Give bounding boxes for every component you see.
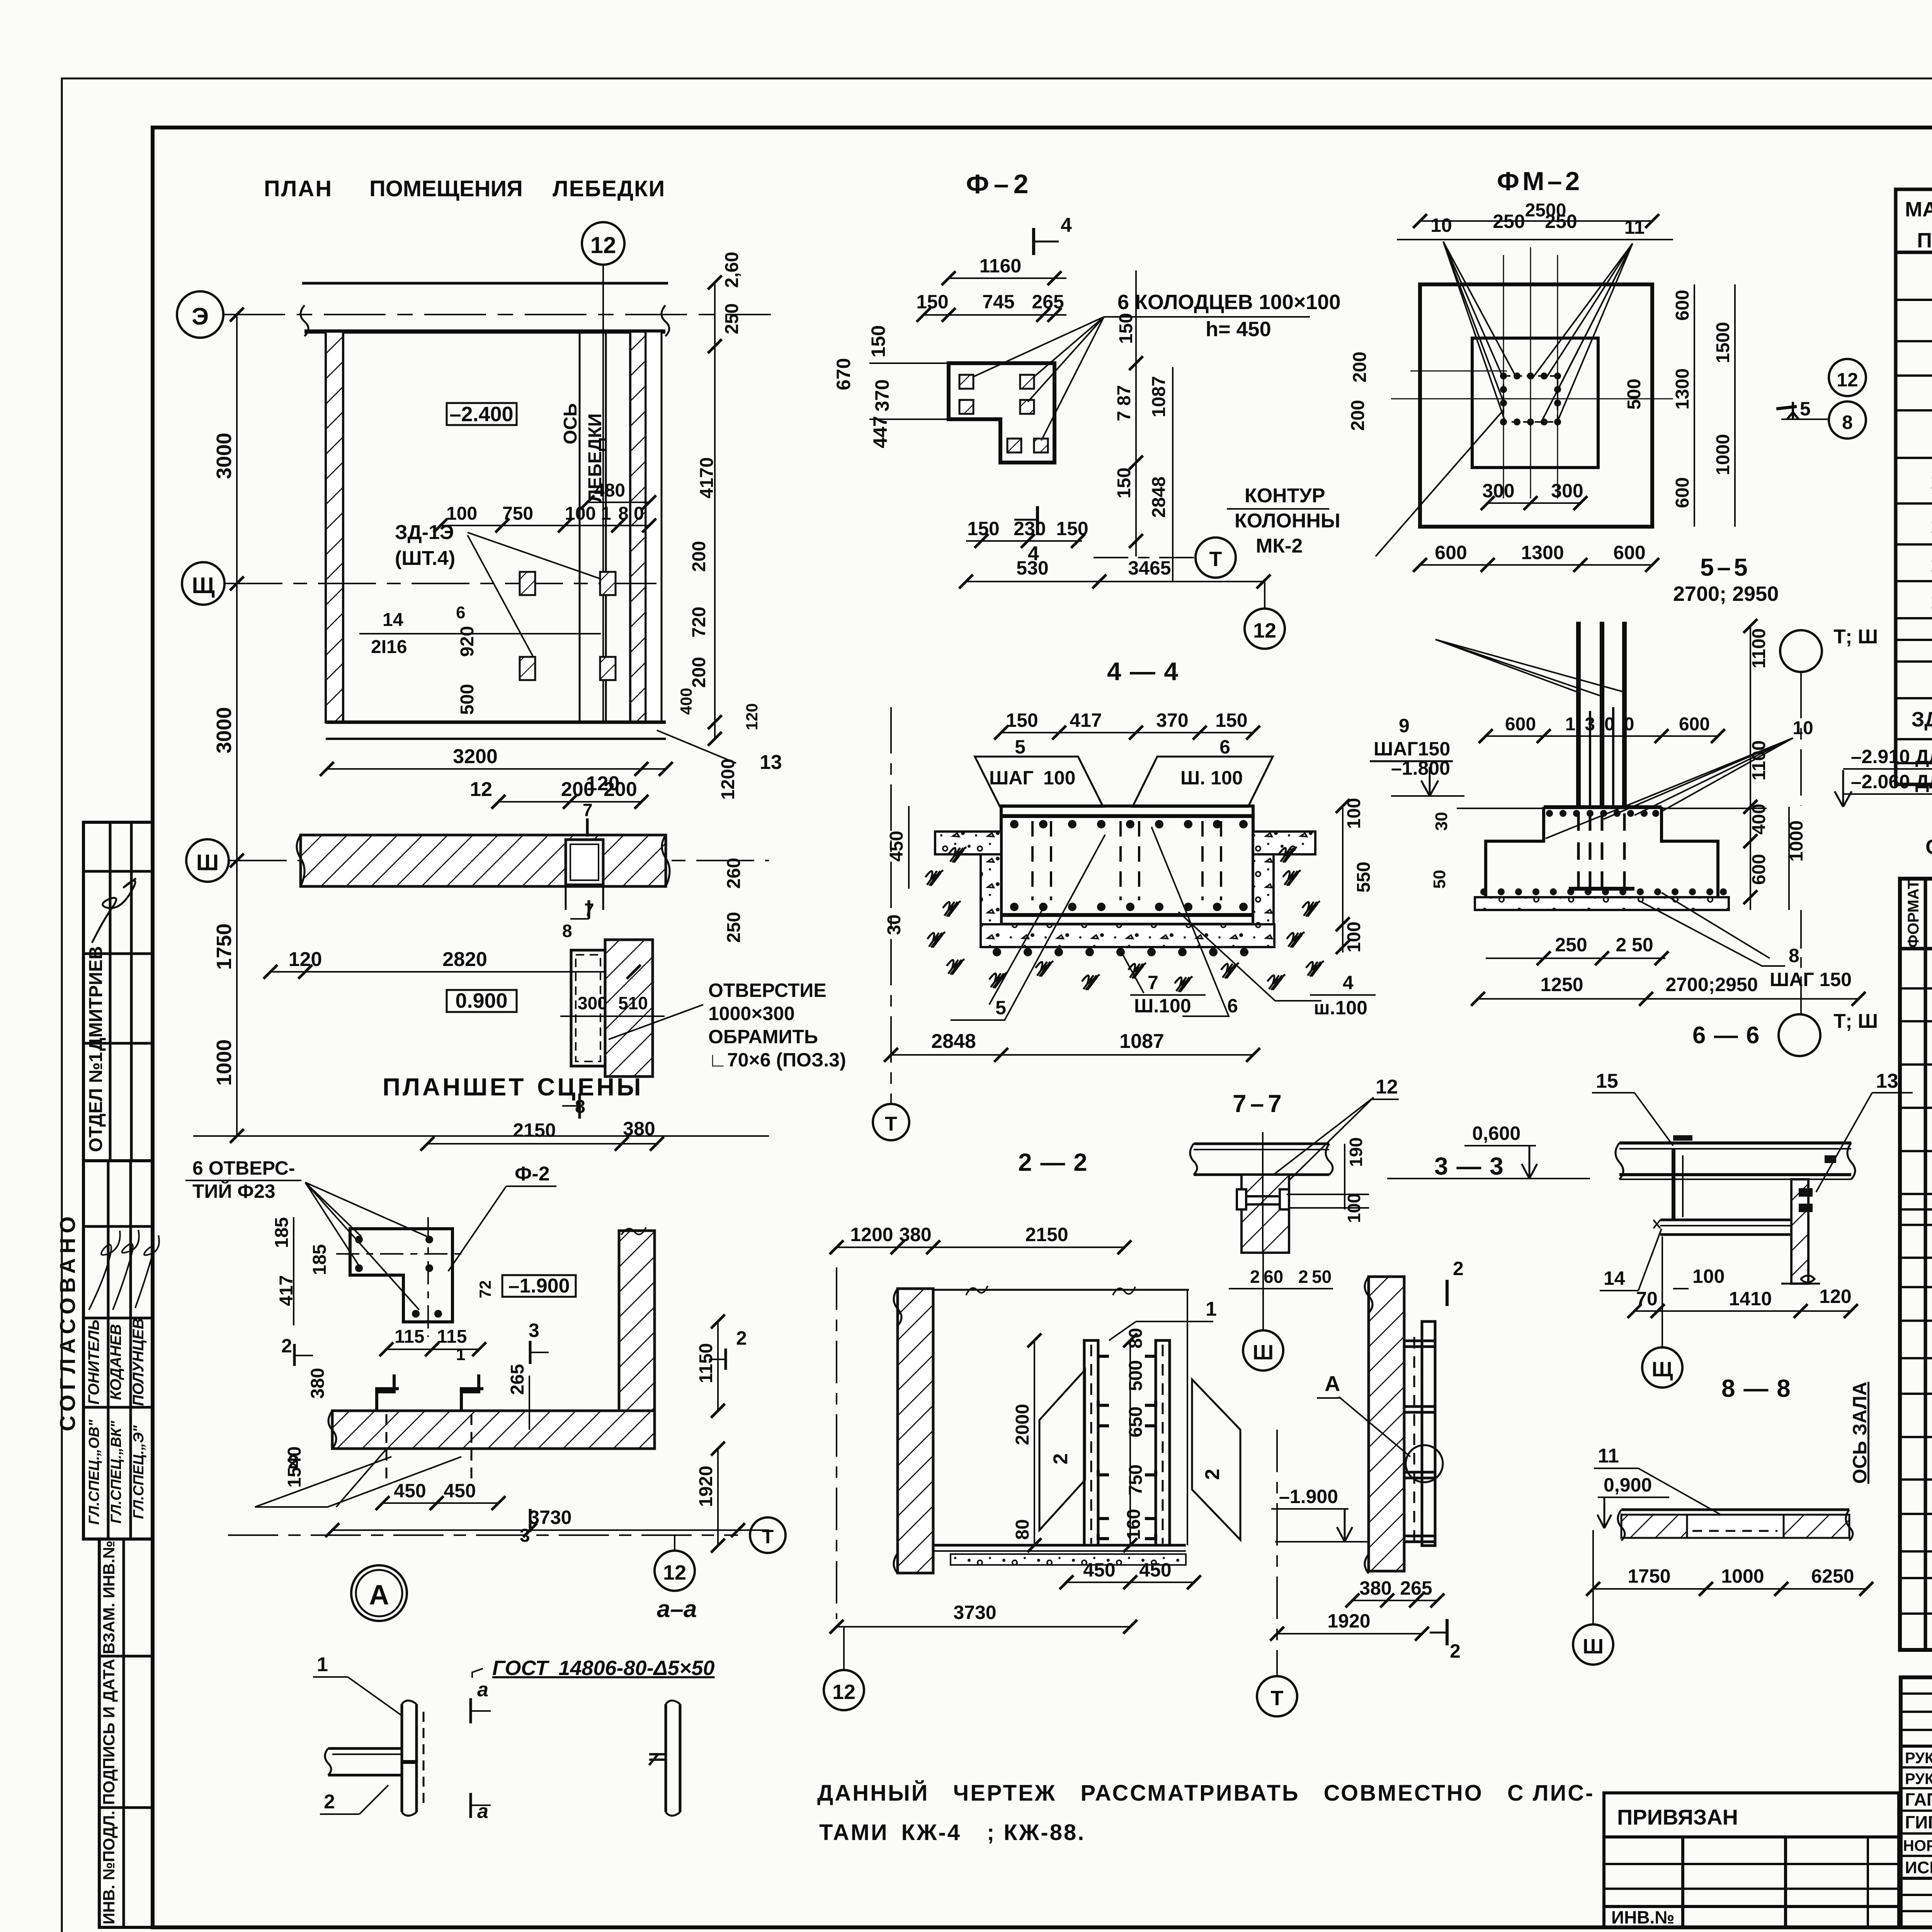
table 2 grid xyxy=(1900,879,1932,1650)
bottom slab xyxy=(981,924,1274,956)
svg-text:3730: 3730 xyxy=(953,1602,996,1623)
bottom dims xyxy=(1593,1565,1866,1589)
leader fan to wells xyxy=(973,317,1310,440)
svg-text:ИНВ.№: ИНВ.№ xyxy=(1611,1907,1675,1927)
marker 3 xyxy=(529,1320,549,1364)
6-6 title + circle xyxy=(1692,910,1878,1056)
svg-text:Ф–2: Ф–2 xyxy=(966,169,1033,199)
top dims xyxy=(837,1224,1124,1247)
callout trapezoid left ШАГ 100 xyxy=(975,757,1103,807)
wall right xyxy=(1781,1179,1820,1284)
big circle A xyxy=(351,1565,407,1621)
weld detail right xyxy=(649,1701,680,1816)
I beam xyxy=(1653,1149,1803,1235)
svg-text:120: 120 xyxy=(1819,1286,1851,1307)
anchor window in Ш wall xyxy=(562,800,603,941)
svg-text:2848: 2848 xyxy=(1149,476,1169,518)
svg-text:12: 12 xyxy=(832,1680,855,1704)
svg-text:ОБРАМИТЬ: ОБРАМИТЬ xyxy=(708,1026,818,1048)
svg-text:5: 5 xyxy=(1015,736,1026,758)
svg-text:80: 80 xyxy=(1012,1519,1033,1540)
ось зала text xyxy=(1849,1382,1871,1484)
svg-text:1200: 1200 xyxy=(718,759,738,800)
svg-text:2Ι16: 2Ι16 xyxy=(371,637,407,657)
svg-text:ПРИВЯЗАН: ПРИВЯЗАН xyxy=(1617,1805,1738,1829)
svg-text:Т: Т xyxy=(762,1526,774,1548)
svg-text:Т: Т xyxy=(1271,1687,1284,1710)
svg-text:2848: 2848 xyxy=(931,1030,976,1053)
svg-text:1: 1 xyxy=(317,1653,328,1676)
svg-text:500: 500 xyxy=(457,684,478,715)
8 ШАГ150 callout xyxy=(1638,893,1852,990)
svg-text:ГОСТ 14806-80-Δ5×50: ГОСТ 14806-80-Δ5×50 xyxy=(492,1656,714,1680)
svg-text:2: 2 xyxy=(1298,1267,1308,1287)
dims left xyxy=(272,1217,479,1364)
svg-text:600: 600 xyxy=(1672,477,1693,508)
svg-text:2,60: 2,60 xyxy=(722,252,742,288)
table 1 header texts xyxy=(1905,198,1932,252)
svg-text:1000: 1000 xyxy=(1721,1565,1764,1587)
svg-text:150: 150 xyxy=(916,291,948,313)
svg-text:250: 250 xyxy=(724,912,744,943)
svg-text:МАРКА: МАРКА xyxy=(1905,198,1932,221)
circle Ш xyxy=(1573,1530,1613,1665)
svg-text:ГАП: ГАП xyxy=(1905,1789,1932,1810)
svg-text:14: 14 xyxy=(383,610,403,630)
svg-text:370: 370 xyxy=(1156,709,1188,731)
svg-text:370: 370 xyxy=(871,379,893,412)
svg-text:6250: 6250 xyxy=(1811,1565,1854,1587)
2 label xyxy=(320,1785,388,1814)
signatures xyxy=(89,1231,120,1310)
vertical opening detail right xyxy=(560,940,665,1077)
svg-text:720: 720 xyxy=(689,607,709,638)
svg-text:250: 250 xyxy=(1545,211,1577,232)
svg-text:ФМ–2: ФМ–2 xyxy=(1497,167,1583,196)
leader fans from 10 and 11 xyxy=(1376,241,1633,556)
svg-text:–1.900: –1.900 xyxy=(1279,1486,1338,1507)
axis circle T xyxy=(1094,537,1236,578)
svg-text:7 87: 7 87 xyxy=(1114,385,1134,421)
svg-text:1087: 1087 xyxy=(1149,376,1169,417)
svg-text:1087: 1087 xyxy=(1119,1030,1164,1053)
table 1 grid xyxy=(1896,189,1932,784)
svg-text:7–7: 7–7 xyxy=(1233,1090,1286,1117)
9 ШАГ150 label xyxy=(1370,715,1453,761)
anchor plates xyxy=(520,572,616,680)
svg-text:250: 250 xyxy=(1493,211,1525,232)
svg-text:2: 2 xyxy=(1450,1640,1461,1662)
svg-text:200: 200 xyxy=(561,778,595,801)
svg-text:5: 5 xyxy=(995,997,1006,1019)
svg-text:ЗД-1Э: ЗД-1Э xyxy=(395,521,454,544)
svg-text:РУК.КБ-1: РУК.КБ-1 xyxy=(1905,1770,1932,1787)
контур колонны text xyxy=(1227,485,1340,557)
svg-text:265: 265 xyxy=(1400,1577,1432,1599)
callout trapezoid right Ш.100 xyxy=(1133,757,1273,807)
svg-text:12: 12 xyxy=(663,1561,686,1584)
left floor flange xyxy=(935,832,1001,924)
ceiling slab band xyxy=(1190,1144,1333,1175)
svg-text:0.900: 0.900 xyxy=(455,989,507,1012)
svg-text:НОРМ.КОН.: НОРМ.КОН. xyxy=(1903,1837,1932,1854)
step profile xyxy=(1486,807,1718,897)
signature xyxy=(92,878,136,943)
leader fan xyxy=(305,1182,427,1310)
left dims 1750 1000 xyxy=(193,861,769,1136)
dim 2500 xyxy=(1420,200,1652,221)
svg-text:300: 300 xyxy=(1551,480,1583,502)
dim 3000 lower left xyxy=(213,583,237,861)
svg-text:1920: 1920 xyxy=(696,1466,716,1507)
svg-text:1: 1 xyxy=(456,1345,465,1364)
floor slab xyxy=(933,1545,1186,1565)
svg-text:13: 13 xyxy=(760,751,782,774)
dashed bars in pedestal xyxy=(1578,813,1624,889)
svg-text:260: 260 xyxy=(724,858,744,889)
dims 380/265 xyxy=(284,1321,718,1546)
svg-text:600: 600 xyxy=(1672,290,1693,321)
svg-text:ПОЛУНЦЕВ: ПОЛУНЦЕВ xyxy=(130,1318,147,1406)
right dims xyxy=(1343,798,1374,952)
svg-text:Ш: Ш xyxy=(1253,1341,1274,1364)
-2.910/-2.060 notes xyxy=(1835,746,1932,807)
top wall band xyxy=(301,283,669,336)
table 2 header texts xyxy=(1905,880,1932,948)
svg-text:ПЛАНШЕТ: ПЛАНШЕТ xyxy=(383,1073,526,1101)
svg-text:Ш.100: Ш.100 xyxy=(1134,995,1191,1017)
svg-text:11: 11 xyxy=(1624,216,1645,238)
svg-text:РУК.ДБ-1: РУК.ДБ-1 xyxy=(1905,1750,1932,1767)
dimension tick marks xyxy=(230,214,1873,1641)
marker 2 right xyxy=(709,1327,747,1370)
weld detail left xyxy=(325,1701,423,1816)
dims 600 1300 600 xyxy=(1486,714,1813,738)
svg-text:190: 190 xyxy=(1346,1137,1366,1167)
bottom dims xyxy=(1277,1577,1437,1634)
outer footing square xyxy=(1420,284,1652,527)
svg-text:200: 200 xyxy=(604,778,637,801)
svg-text:400: 400 xyxy=(677,688,695,715)
30 50 left dims xyxy=(1430,812,1451,889)
svg-text:5–5: 5–5 xyxy=(1700,553,1751,581)
svg-text:ГЛ.СПЕЦ.„Э": ГЛ.СПЕЦ.„Э" xyxy=(131,1425,147,1519)
svg-text:ФОРМАТ: ФОРМАТ xyxy=(1905,880,1922,948)
svg-text:СПЕЦИФИКАЦИЯ РАСХОДА МАТЕРИАЛО: СПЕЦИФИКАЦИЯ РАСХОДА МАТЕРИАЛОВ НА ЭЛЕМЕ… xyxy=(1925,835,1932,859)
svg-text:ЛЕБЕДКИ: ЛЕБЕДКИ xyxy=(553,176,665,201)
svg-text:1300: 1300 xyxy=(1672,368,1693,410)
12 label with fan xyxy=(1264,1076,1399,1194)
svg-text:4: 4 xyxy=(1343,972,1354,993)
svg-text:2700;2950: 2700;2950 xyxy=(1665,974,1758,995)
steel column channels xyxy=(1084,1340,1170,1545)
wells (колодцы) xyxy=(959,375,1048,452)
circle Ш xyxy=(1243,1253,1283,1371)
svg-text:ПОДПИСЬ И ДАТА: ПОДПИСЬ И ДАТА xyxy=(100,1659,118,1805)
svg-text:12: 12 xyxy=(1253,619,1276,642)
signature table xyxy=(1901,1677,1932,1927)
svg-text:300: 300 xyxy=(578,993,607,1013)
callout parallelogram lower left xyxy=(255,1449,461,1507)
axis dashdot xyxy=(228,1534,738,1536)
svg-text:115: 115 xyxy=(395,1327,424,1347)
svg-text:ГИП: ГИП xyxy=(1905,1812,1932,1832)
svg-text:8: 8 xyxy=(1789,945,1799,966)
svg-text:400: 400 xyxy=(1749,804,1769,835)
axis T vertical xyxy=(873,707,909,1140)
dims rotated xyxy=(1012,1328,1146,1545)
svg-text:0,900: 0,900 xyxy=(1604,1474,1652,1496)
svg-text:ОСЬ: ОСЬ xyxy=(560,403,581,445)
svg-text:2: 2 xyxy=(281,1335,292,1357)
hatched L wall xyxy=(328,1227,655,1449)
svg-text:480: 480 xyxy=(594,480,625,501)
svg-text:ОТВЕРСТИЕ: ОТВЕРСТИЕ xyxy=(708,980,827,1001)
svg-text:ГЛ.СПЕЦ.„ОВ": ГЛ.СПЕЦ.„ОВ" xyxy=(86,1419,102,1525)
axis circle Ш + wall band xyxy=(186,835,769,943)
svg-text:Т; Ш: Т; Ш xyxy=(1833,626,1878,648)
svg-text:6 ОТВЕРС-: 6 ОТВЕРС- xyxy=(192,1157,295,1179)
svg-text:ГОНИТЕЛЬ: ГОНИТЕЛЬ xyxy=(85,1320,102,1405)
svg-text:1100: 1100 xyxy=(1749,740,1769,781)
right floor flange xyxy=(1253,832,1315,924)
dim 3000 upper left xyxy=(213,315,237,583)
svg-text:200: 200 xyxy=(1348,400,1368,431)
svg-text:30: 30 xyxy=(1432,812,1451,831)
svg-text:ш.100: ш.100 xyxy=(1314,997,1367,1019)
svg-text:1: 1 xyxy=(601,503,611,524)
dim 120 2820 row xyxy=(270,948,634,972)
svg-text:Т; Ш: Т; Ш xyxy=(1833,1010,1878,1032)
circle T;Ш top xyxy=(1780,626,1878,806)
svg-text:115: 115 xyxy=(437,1327,467,1347)
svg-text:6: 6 xyxy=(1219,736,1230,758)
left sub-table xyxy=(1604,1837,1899,1927)
dims top xyxy=(916,255,1066,315)
svg-text:185: 185 xyxy=(272,1217,292,1248)
svg-text:200: 200 xyxy=(1350,352,1370,383)
a section marks xyxy=(471,1679,491,1823)
svg-text:150: 150 xyxy=(867,325,889,357)
привязан band xyxy=(1604,1793,1899,1837)
marker 5 xyxy=(1776,398,1829,420)
отверстие text xyxy=(609,980,846,1071)
svg-text:300: 300 xyxy=(1482,480,1514,502)
foundation plan outline xyxy=(949,363,1054,463)
svg-text:a–a: a–a xyxy=(657,1596,697,1622)
svg-text:3: 3 xyxy=(529,1320,539,1341)
wall below xyxy=(1237,1132,1369,1254)
ЗД-1Э callout xyxy=(395,521,603,657)
svg-text:600: 600 xyxy=(1435,542,1467,563)
svg-text:15: 15 xyxy=(1596,1070,1618,1092)
svg-text:1200: 1200 xyxy=(850,1224,893,1245)
circles 12 8 xyxy=(1829,359,1866,396)
svg-text:3200: 3200 xyxy=(453,745,498,768)
svg-text:2 — 2: 2 — 2 xyxy=(1018,1148,1088,1176)
svg-text:380: 380 xyxy=(1359,1577,1391,1599)
svg-text:500: 500 xyxy=(1624,379,1645,410)
svg-text:–1.800: –1.800 xyxy=(1391,757,1450,779)
dims right rotated xyxy=(1114,270,1173,582)
svg-text:450: 450 xyxy=(1083,1559,1115,1581)
hatched wall xyxy=(1365,1277,1404,1573)
svg-text:50: 50 xyxy=(1312,1267,1332,1287)
svg-text:ТАМИ КЖ-4 ; КЖ-88.: ТАМИ КЖ-4 ; КЖ-88. xyxy=(819,1820,1085,1845)
svg-text:11: 11 xyxy=(1598,1445,1619,1467)
circle T right xyxy=(750,1517,786,1553)
svg-text:13: 13 xyxy=(1930,515,1932,538)
svg-text:–2.400: –2.400 xyxy=(449,403,513,426)
svg-text:185: 185 xyxy=(310,1244,330,1275)
svg-text:1100: 1100 xyxy=(1749,628,1769,668)
svg-text:160: 160 xyxy=(1124,1509,1144,1540)
dims xyxy=(1229,1137,1366,1289)
svg-text:2 50: 2 50 xyxy=(1616,934,1653,956)
svg-text:100: 100 xyxy=(1043,767,1075,789)
bottom dims of room xyxy=(327,730,782,802)
svg-text:1920: 1920 xyxy=(1327,1610,1370,1632)
svg-text:200: 200 xyxy=(689,657,709,688)
circle Щ xyxy=(1642,1236,1682,1388)
-1.800 level mark xyxy=(1391,757,1464,796)
footing slab xyxy=(1475,888,1729,910)
svg-text:100: 100 xyxy=(446,503,477,524)
svg-text:450: 450 xyxy=(886,831,907,862)
stamp cluster 1 (ОТДЕЛ №1) xyxy=(83,822,153,1161)
left dims xyxy=(884,806,909,935)
axis dashdot vertical xyxy=(836,1267,837,1619)
svg-text:380: 380 xyxy=(308,1368,328,1399)
svg-text:ШАГ: ШАГ xyxy=(989,767,1034,789)
column bars xyxy=(1578,622,1624,807)
svg-text:КОЛОННЫ: КОЛОННЫ xyxy=(1235,510,1340,532)
svg-text:ПОЗ.: ПОЗ. xyxy=(1917,229,1932,252)
svg-text:4170: 4170 xyxy=(697,457,717,498)
-1.900 mark xyxy=(1271,1486,1369,1542)
svg-text:Э: Э xyxy=(192,303,209,330)
stamp cluster 3 (ВЗАМ/ПОДПИСЬ/ИНВ) xyxy=(99,1539,153,1927)
svg-text:ТИЙ Ф23: ТИЙ Ф23 xyxy=(192,1180,276,1202)
svg-text:2700; 2950: 2700; 2950 xyxy=(1673,582,1779,605)
svg-text:510: 510 xyxy=(618,993,648,1013)
svg-text:1750: 1750 xyxy=(213,923,236,970)
marker 2 left xyxy=(281,1335,313,1366)
soil hatch scribbles xyxy=(925,847,1324,992)
svg-text:1500: 1500 xyxy=(1713,322,1733,363)
1 label xyxy=(1109,1298,1217,1340)
svg-text:∟70×6 (ПОЗ.3): ∟70×6 (ПОЗ.3) xyxy=(708,1049,846,1071)
svg-text:Ш: Ш xyxy=(1583,1635,1604,1658)
bottom dims 300 300 xyxy=(1420,480,1652,565)
svg-text:6 — 6: 6 — 6 xyxy=(1692,1022,1760,1049)
right side dims of plan xyxy=(677,252,761,739)
svg-text:30: 30 xyxy=(884,915,905,935)
2 markers xyxy=(1430,1258,1464,1662)
svg-text:Т: Т xyxy=(885,1113,897,1135)
svg-text:Ш. 100: Ш. 100 xyxy=(1180,767,1243,789)
angle brackets on slab xyxy=(377,1374,483,1480)
svg-text:50: 50 xyxy=(1430,870,1449,889)
svg-text:А: А xyxy=(369,1580,389,1611)
svg-text:150: 150 xyxy=(1006,709,1038,731)
svg-text:4: 4 xyxy=(1028,543,1039,565)
svg-text:8: 8 xyxy=(562,921,572,941)
svg-text:72: 72 xyxy=(476,1280,494,1298)
svg-text:ШАГ150: ШАГ150 xyxy=(1374,738,1450,760)
svg-text:ОТДЕЛ №1: ОТДЕЛ №1 xyxy=(86,1052,106,1152)
axis line Э xyxy=(223,314,771,315)
svg-text:ВЗАМ. ИНВ.№: ВЗАМ. ИНВ.№ xyxy=(100,1541,118,1654)
svg-text:230: 230 xyxy=(1014,518,1046,539)
svg-text:3000: 3000 xyxy=(213,433,236,479)
svg-text:1 3 0 0: 1 3 0 0 xyxy=(1565,714,1634,735)
right dims column xyxy=(1749,626,1807,910)
svg-text:КОДАНЕВ: КОДАНЕВ xyxy=(107,1324,124,1400)
svg-text:1750: 1750 xyxy=(1628,1565,1670,1587)
svg-text:ИНВ. №ПОДЛ.: ИНВ. №ПОДЛ. xyxy=(100,1811,118,1924)
axis circle Э xyxy=(177,291,223,338)
svg-text:920: 920 xyxy=(457,626,478,657)
1 label xyxy=(313,1653,402,1716)
6 отверстий text xyxy=(185,1157,301,1202)
svg-text:2000: 2000 xyxy=(1012,1404,1033,1445)
svg-text:СОГЛАСОВАНО: СОГЛАСОВАНО xyxy=(55,1212,80,1431)
lower slab detail xyxy=(1594,1445,1853,1541)
svg-text:1150: 1150 xyxy=(696,1343,716,1383)
svg-text:550: 550 xyxy=(1354,862,1374,893)
svg-text:447: 447 xyxy=(869,416,891,448)
svg-text:12: 12 xyxy=(470,778,492,801)
angle cleats xyxy=(1098,1356,1156,1539)
table 1 rows text xyxy=(1912,261,1932,733)
svg-text:150: 150 xyxy=(1114,468,1134,498)
VIEWS xyxy=(177,167,1932,1845)
TABLE1 xyxy=(1896,157,1932,784)
svg-text:450: 450 xyxy=(444,1480,476,1502)
lower callouts xyxy=(951,827,1376,1020)
bottom dims xyxy=(1634,1286,1852,1311)
svg-text:6: 6 xyxy=(456,603,465,622)
A label xyxy=(1317,1371,1410,1457)
svg-text:ИСПОЛН.: ИСПОЛН. xyxy=(1905,1858,1932,1877)
svg-text:a: a xyxy=(477,1800,488,1823)
svg-text:А: А xyxy=(1325,1371,1340,1396)
svg-text:13: 13 xyxy=(1876,1070,1898,1092)
svg-text:3000: 3000 xyxy=(213,707,236,753)
-2.400 level label xyxy=(447,403,517,426)
left dims 200 200 xyxy=(1348,352,1370,431)
0.900 level label xyxy=(447,989,517,1012)
svg-text:12: 12 xyxy=(1376,1076,1398,1098)
svg-text:1250: 1250 xyxy=(1540,974,1583,995)
svg-text:–2.060 ДЛЯ ОСИ „12“: –2.060 ДЛЯ ОСИ „12“ xyxy=(1851,771,1932,793)
leader fan 10 xyxy=(1546,738,1793,838)
svg-text:1000×300: 1000×300 xyxy=(708,1003,795,1024)
svg-text:750: 750 xyxy=(1126,1464,1146,1495)
svg-text:Ш: Ш xyxy=(196,850,219,875)
svg-text:7: 7 xyxy=(1148,972,1158,993)
svg-text:670: 670 xyxy=(833,358,854,390)
top labels 10 250 250 11 xyxy=(1397,211,1673,240)
svg-text:2: 2 xyxy=(1250,1267,1260,1287)
svg-text:120: 120 xyxy=(743,703,761,730)
svg-text:12: 12 xyxy=(590,232,616,258)
LEFT-STAMPS xyxy=(55,822,159,1927)
pedestal top xyxy=(1457,807,1767,817)
TABLE2 xyxy=(1900,835,1932,1650)
svg-text:100: 100 xyxy=(1344,1193,1364,1223)
